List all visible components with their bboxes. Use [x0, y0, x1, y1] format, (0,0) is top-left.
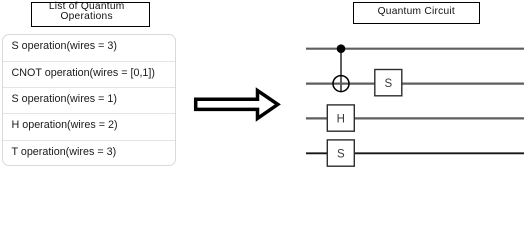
list item: T operation(wires = 3) — [3, 141, 175, 165]
title box: List of Quantum Operations — [31, 2, 150, 27]
wire q1 — [306, 82, 524, 84]
wire q2 — [306, 117, 524, 119]
CNOT control dot (q0) — [337, 44, 346, 53]
list item: S operation(wires = 1) — [3, 88, 175, 114]
wire q0 — [306, 48, 524, 50]
wire q3 — [306, 152, 524, 154]
quantum circuit drawing — [0, 0, 524, 168]
CNOT vertical connector — [340, 49, 342, 92]
gate H on q2 — [327, 105, 354, 131]
svg-text:S: S — [384, 78, 392, 90]
svg-text:S: S — [337, 148, 345, 160]
CNOT target (q1) — [333, 76, 349, 92]
gate S on q3 — [327, 140, 354, 166]
list item: H operation(wires = 2) — [3, 114, 175, 140]
list item: S operation(wires = 3) — [3, 35, 175, 62]
gate S on q1 — [375, 70, 402, 96]
svg-text:H: H — [337, 113, 345, 125]
title box: Quantum Circuit — [353, 2, 480, 24]
list of quantum operations — [2, 34, 176, 166]
list item: CNOT operation(wires = [0,1]) — [3, 62, 175, 88]
block arrow — [0, 0, 524, 168]
